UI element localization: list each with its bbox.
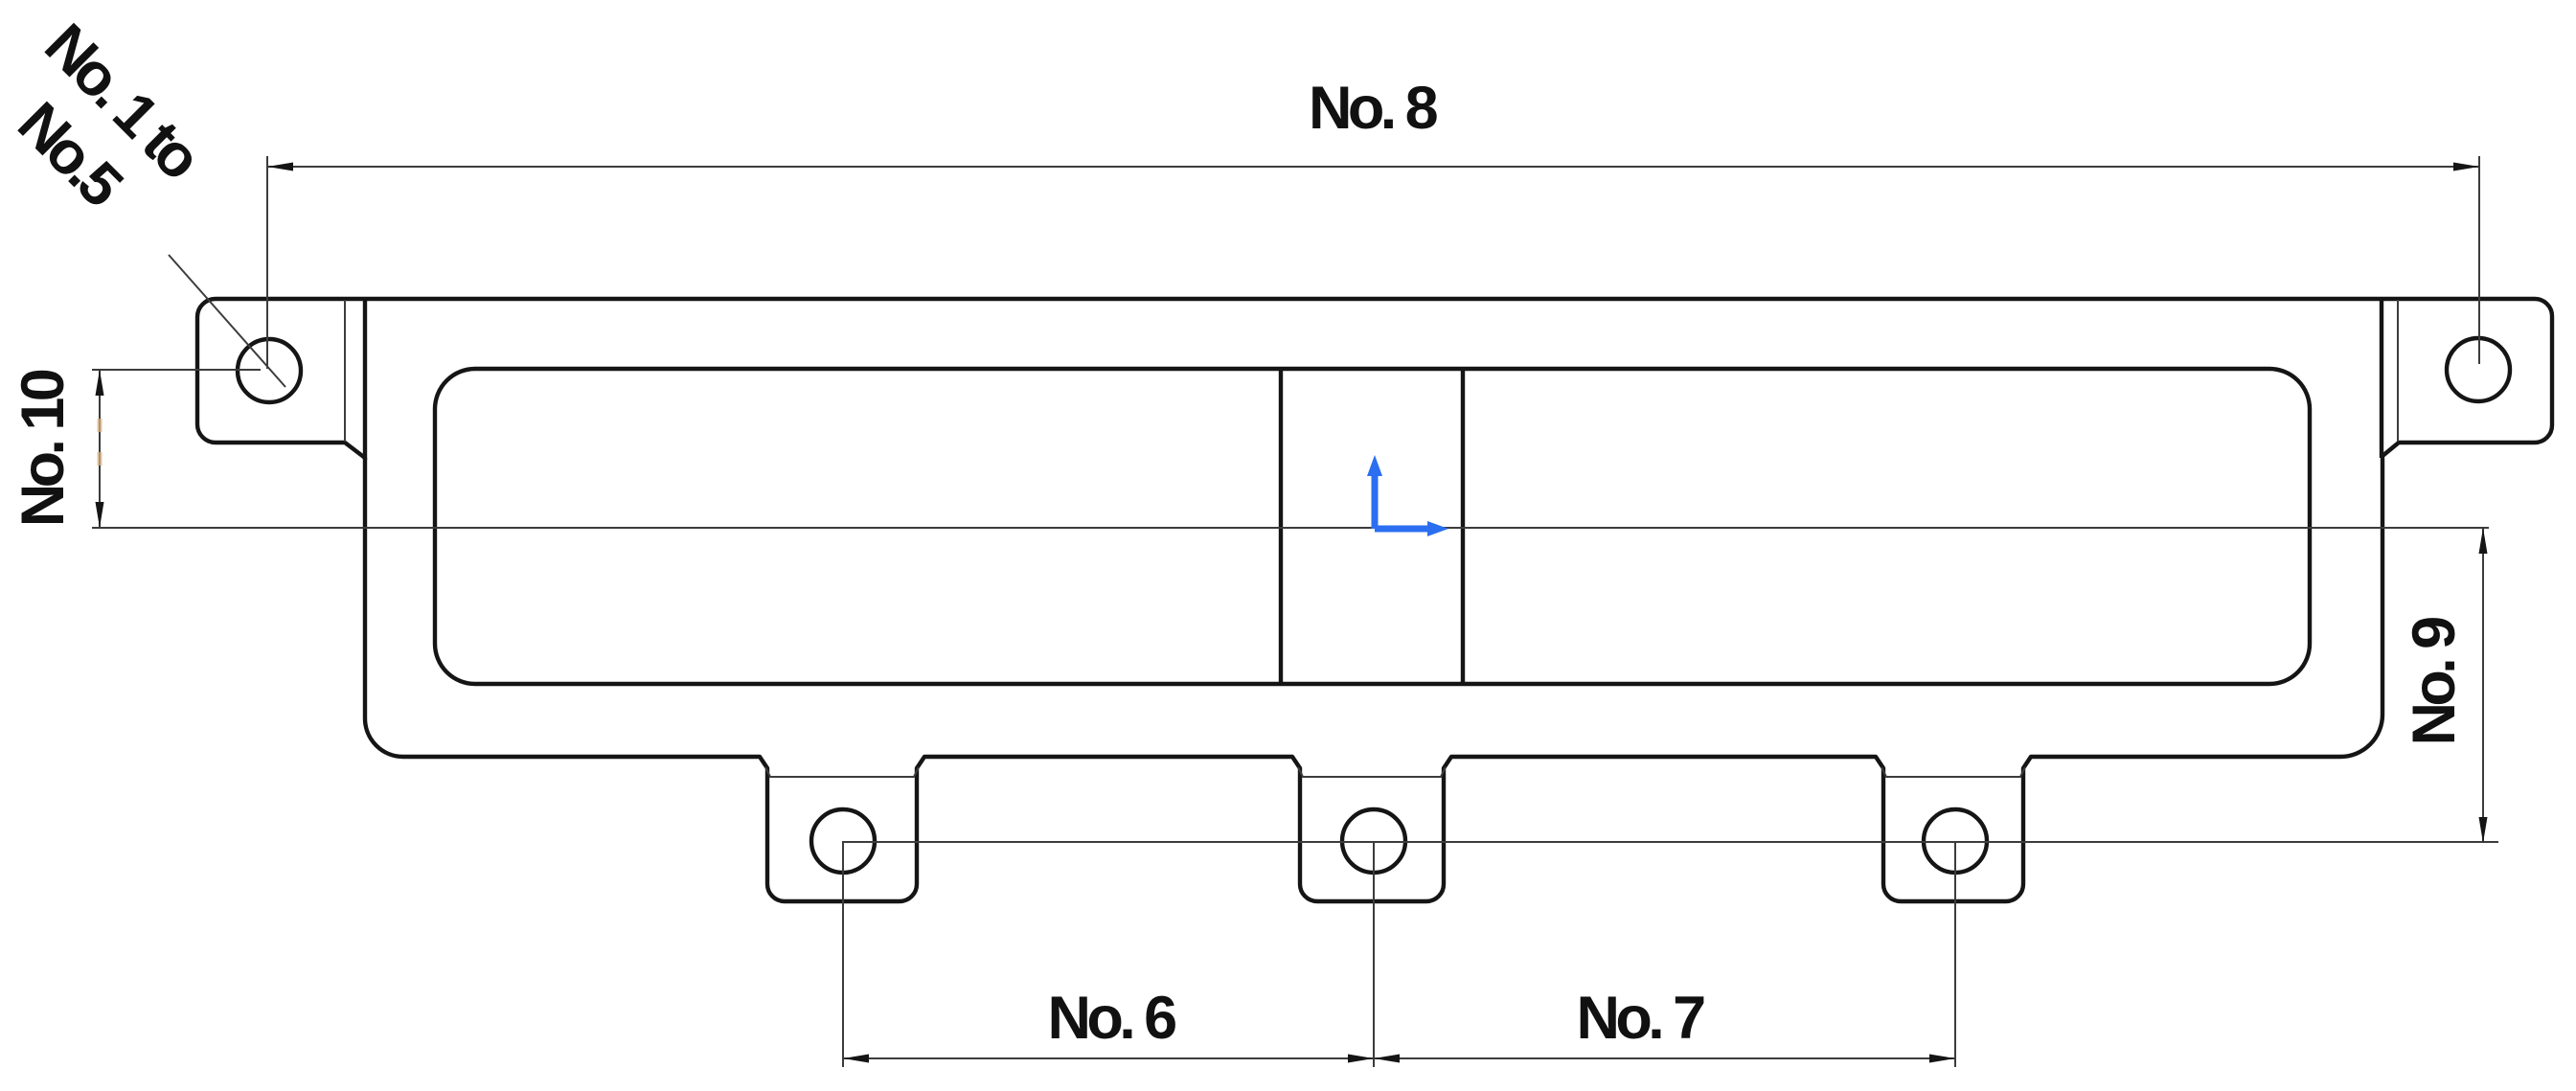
bend line top-right tab bbox=[2397, 300, 2399, 442]
hole bottom-middle bbox=[1342, 809, 1405, 873]
body right edge through tab bbox=[2380, 299, 2383, 458]
hole bottom-left bbox=[811, 809, 875, 873]
extension line top for No. 10 bbox=[92, 369, 261, 371]
svg-text:No. 9: No. 9 bbox=[2401, 618, 2468, 746]
extension line hole 2 bbox=[1373, 841, 1375, 1067]
dimension line No. 6 / No. 7 bbox=[843, 1057, 1955, 1059]
svg-text:No. 10: No. 10 bbox=[10, 370, 77, 527]
hole top-left bbox=[238, 339, 301, 402]
body left edge through tab bbox=[363, 299, 367, 460]
dimension line No. 9 bbox=[2482, 528, 2484, 843]
centerline datum bbox=[92, 527, 2489, 529]
origin marker bbox=[1367, 455, 1448, 536]
part outer outline bbox=[197, 299, 2552, 901]
extension line left for No. 8 bbox=[266, 156, 268, 369]
inner rounded rectangle bbox=[435, 369, 2310, 684]
extension line hole 1 bbox=[842, 841, 844, 1067]
leader line No. 1 to No.5 bbox=[169, 255, 285, 387]
divider line left bbox=[1279, 369, 1283, 684]
bend line bottom tab 3 bbox=[1881, 767, 2025, 777]
svg-text:No. 8: No. 8 bbox=[1309, 75, 1438, 142]
svg-text:No. 7: No. 7 bbox=[1576, 985, 1704, 1052]
highlight dash 1 on No. 10 bbox=[98, 419, 103, 432]
extension line bottom for No. 9 bbox=[844, 841, 2498, 843]
bend line top-left tab bbox=[344, 300, 346, 442]
hole top-right bbox=[2447, 338, 2510, 401]
bend line bottom tab 1 bbox=[765, 767, 919, 777]
highlight dash 2 on No. 10 bbox=[98, 452, 103, 466]
divider line right bbox=[1461, 369, 1465, 684]
dimension line No. 10 bbox=[99, 370, 101, 528]
extension line hole 3 bbox=[1954, 841, 1956, 1067]
dimension line No. 8 bbox=[267, 166, 2479, 168]
hole bottom-right bbox=[1924, 809, 1987, 873]
extension line right for No. 8 bbox=[2478, 156, 2480, 364]
bend line bottom tab 2 bbox=[1298, 767, 1446, 777]
svg-text:No. 6: No. 6 bbox=[1047, 985, 1175, 1052]
